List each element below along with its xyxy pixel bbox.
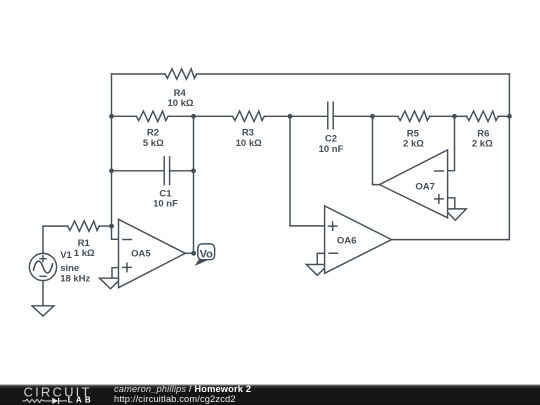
svg-text:OA5: OA5 <box>131 249 151 260</box>
label V1 <box>60 250 90 284</box>
svg-text:10 nF: 10 nF <box>153 199 178 210</box>
wire OA5 plus jog <box>112 268 119 278</box>
label R3 <box>236 128 262 149</box>
resistor R4 <box>165 69 197 79</box>
svg-text:2 kΩ: 2 kΩ <box>472 139 493 150</box>
wire OA6 plus input <box>290 116 325 226</box>
resistor R3 <box>194 111 291 121</box>
ground OA5 <box>100 278 122 289</box>
wire OA7 plus jog <box>448 198 455 209</box>
op-amp OA5 <box>119 219 186 287</box>
CircuitLab logo <box>0 384 112 405</box>
ground V1 <box>32 306 54 316</box>
label OA5 <box>131 249 151 260</box>
label R2 <box>143 128 164 149</box>
footer text <box>114 385 251 404</box>
label C2 <box>319 133 344 155</box>
footer bar <box>0 384 540 405</box>
svg-text:10 nF: 10 nF <box>319 144 344 155</box>
voltage source V1 <box>29 253 56 280</box>
ground OA6 <box>306 265 328 276</box>
wire left rail <box>112 116 119 239</box>
wire OA7 minus input <box>448 116 455 170</box>
svg-text:5 kΩ: 5 kΩ <box>143 138 164 149</box>
resistor R2 <box>112 111 194 121</box>
wire node1 rail <box>193 116 195 253</box>
label R6 <box>472 129 493 150</box>
svg-text:OA7: OA7 <box>415 181 435 192</box>
capacitor C1 <box>112 157 194 185</box>
svg-text:R2: R2 <box>147 128 159 139</box>
capacitor C2 <box>290 102 373 129</box>
svg-text:OA6: OA6 <box>337 236 357 247</box>
label OA6 <box>337 236 357 247</box>
svg-text:18 kHz: 18 kHz <box>60 273 90 284</box>
svg-text:V1: V1 <box>60 250 72 261</box>
op-amp OA7 <box>379 150 447 218</box>
wire V1 bottom <box>42 281 44 306</box>
resistor R6 <box>455 111 510 121</box>
svg-text:10 kΩ: 10 kΩ <box>167 98 193 109</box>
label R5 <box>403 129 424 150</box>
wire OA6 output <box>392 116 510 239</box>
resistor R5 <box>373 111 455 121</box>
wire OA5 output <box>185 252 193 254</box>
wire OA6 minus jog <box>317 253 324 264</box>
svg-text:C2: C2 <box>325 133 337 144</box>
op-amp OA6 <box>325 206 392 273</box>
svg-text:2 kΩ: 2 kΩ <box>403 139 424 150</box>
svg-text:10 kΩ: 10 kΩ <box>236 138 262 149</box>
svg-text:1 kΩ: 1 kΩ <box>74 248 95 259</box>
label R4 <box>167 88 193 109</box>
node junction dots <box>109 114 512 256</box>
wire V1 top <box>42 226 44 253</box>
svg-text:LAB: LAB <box>68 396 94 405</box>
svg-text:R1: R1 <box>78 238 91 249</box>
wire OA7 output <box>373 116 380 184</box>
node Vo flag <box>195 244 215 266</box>
svg-text:Vo: Vo <box>200 248 214 260</box>
resistor R1 <box>43 221 112 231</box>
label R1 <box>74 238 95 259</box>
label OA7 <box>415 181 435 192</box>
label C1 <box>153 189 178 210</box>
wire top feedback <box>112 74 510 116</box>
ground OA7 <box>444 209 466 220</box>
